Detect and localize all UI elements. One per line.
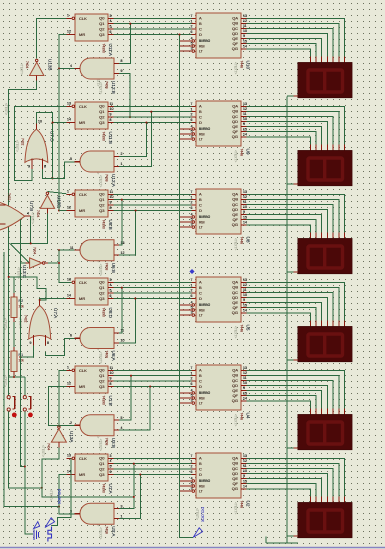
wire segment QG stage3 to display xyxy=(247,225,311,233)
display stage3 pin stub F xyxy=(315,232,317,238)
svg-text:C: C xyxy=(199,290,202,295)
svg-text:Q0: Q0 xyxy=(99,16,105,21)
svg-text:13: 13 xyxy=(121,241,125,245)
svg-text:1: 1 xyxy=(67,14,69,18)
or-gate U7:A body xyxy=(29,306,51,340)
wire U12:B output to MR1 xyxy=(59,35,75,69)
wire display stage4 common pin xyxy=(287,359,294,361)
display stage1 pin stub B xyxy=(338,56,340,62)
wire segment QC stage4 to display xyxy=(247,293,334,321)
display stage5 pin stub C xyxy=(332,408,334,414)
svg-text:7408: 7408 xyxy=(105,526,109,534)
wire segment QF stage3 to display xyxy=(247,220,317,233)
svg-text:U8:D: U8:D xyxy=(108,308,113,319)
svg-text:1: 1 xyxy=(191,195,193,199)
svg-text:Q3: Q3 xyxy=(99,208,105,213)
svg-text:LT: LT xyxy=(199,137,203,141)
svg-text:1: 1 xyxy=(67,366,69,370)
display stage6 pin stub G xyxy=(309,496,311,502)
AND gate U12:A body xyxy=(80,151,114,172)
wire display common bottom run xyxy=(266,542,298,544)
display stage6 pin stub F xyxy=(315,496,317,502)
svg-text:Q3: Q3 xyxy=(99,472,105,477)
wire segment QC stage6 to display xyxy=(247,469,334,497)
sheet border bottom xyxy=(0,547,385,549)
display stage6 pin stub B xyxy=(338,496,340,502)
svg-text:Q0: Q0 xyxy=(99,104,105,109)
switch SW2 xyxy=(23,396,26,399)
display stage5 pin stub E xyxy=(321,408,323,414)
wire segment QG stage6 to display xyxy=(247,489,311,497)
wire Q1 stage3 counter to decoder xyxy=(114,199,192,201)
display stage2 pin stub C xyxy=(332,144,334,150)
counter U1:A CLK pin xyxy=(67,457,72,459)
wire display stage1 common pin xyxy=(287,95,294,97)
wire U3:A upper input tap xyxy=(119,464,134,509)
svg-text:12: 12 xyxy=(121,251,125,255)
svg-text:6: 6 xyxy=(110,30,112,34)
svg-text:12: 12 xyxy=(243,195,247,199)
svg-text:1: 1 xyxy=(191,283,193,287)
svg-text:9: 9 xyxy=(110,113,112,117)
svg-text:<TEXT>: <TEXT> xyxy=(31,212,35,224)
svg-text:CLK: CLK xyxy=(79,192,87,197)
clock source DCLOCK terminal pennant xyxy=(45,518,55,528)
svg-text:6: 6 xyxy=(191,470,193,474)
svg-text:U1:A: U1:A xyxy=(108,484,113,495)
resistor R1 xyxy=(11,351,17,372)
AND gate U6:B body xyxy=(80,240,114,261)
switch SW1 xyxy=(7,396,10,399)
wire segment QC stage1 to display xyxy=(247,29,334,57)
decoder U10 7448 box xyxy=(196,13,241,58)
counter U11:A 74390 box xyxy=(75,14,108,41)
svg-text:8: 8 xyxy=(110,118,112,122)
svg-text:A: A xyxy=(199,104,202,109)
svg-text:Q2: Q2 xyxy=(99,114,105,119)
decoder U9 7448 box xyxy=(196,101,241,146)
svg-text:12: 12 xyxy=(243,283,247,287)
wire Q2 stage3 counter to decoder xyxy=(114,204,192,206)
wire left rail A xyxy=(4,252,59,507)
svg-text:QG: QG xyxy=(232,398,238,403)
7-seg display stage5 body xyxy=(298,414,352,449)
counter U1:B MR pin xyxy=(67,386,76,388)
svg-text:Q1: Q1 xyxy=(99,461,105,466)
svg-text:<TEXT>: <TEXT> xyxy=(99,82,103,94)
svg-text:4: 4 xyxy=(191,477,193,481)
svg-text:7: 7 xyxy=(191,278,193,282)
svg-text:B: B xyxy=(199,197,202,202)
wire U7:A output to MR4 xyxy=(40,299,67,301)
svg-text:3: 3 xyxy=(191,223,193,227)
svg-text:U1:B: U1:B xyxy=(108,396,113,406)
inverter U13C body xyxy=(30,258,42,268)
wire U3:B lower input tap xyxy=(119,387,150,431)
wire Q1 stage4 counter to decoder xyxy=(114,287,192,289)
decoder U4 7448 box xyxy=(196,365,241,410)
svg-text:C: C xyxy=(199,114,202,119)
counter U11:A MR pin xyxy=(67,34,76,36)
svg-text:9: 9 xyxy=(28,165,30,169)
svg-text:7432: 7432 xyxy=(21,138,25,146)
counter U1:A 74390 box xyxy=(75,454,108,481)
svg-text:2: 2 xyxy=(191,25,193,29)
svg-text:<TEXT>: <TEXT> xyxy=(3,375,7,387)
display stage6 pin stub A xyxy=(344,496,346,502)
svg-text:3: 3 xyxy=(110,454,112,458)
svg-text:LT: LT xyxy=(199,49,203,53)
svg-text:15: 15 xyxy=(243,391,247,395)
svg-text:U9: U9 xyxy=(246,149,251,155)
svg-text:Q3: Q3 xyxy=(99,32,105,37)
wire BI/RBI/LT tie rail to clock terminal xyxy=(180,35,194,538)
svg-text:5: 5 xyxy=(191,394,193,398)
wire segment QD stage5 to display xyxy=(247,386,328,409)
svg-text:10: 10 xyxy=(121,339,125,343)
wire bottom stub cap xyxy=(265,537,267,544)
svg-text:<TEXT>: <TEXT> xyxy=(234,62,238,74)
clock source square-wave symbol xyxy=(48,527,52,542)
svg-text:MR: MR xyxy=(79,296,85,301)
display stage5 pin stub G xyxy=(309,408,311,414)
display stage4 pin stub D xyxy=(326,320,328,326)
display stage4 pin stub A xyxy=(344,320,346,326)
wire R2 to R1 xyxy=(13,322,15,347)
wire Q0 stage3 counter to decoder xyxy=(114,193,192,195)
wire U6:B upper input tap xyxy=(119,200,122,246)
svg-text:4: 4 xyxy=(191,125,193,129)
svg-text:10: 10 xyxy=(243,293,247,297)
svg-text:U6:B: U6:B xyxy=(111,263,116,273)
decoder U8 output stubs xyxy=(241,193,247,195)
svg-text:U5: U5 xyxy=(246,325,251,331)
svg-text:3: 3 xyxy=(191,399,193,403)
AND gate U3:A body xyxy=(80,503,114,524)
svg-text:Q1: Q1 xyxy=(99,109,105,114)
svg-text:11: 11 xyxy=(243,464,247,468)
wire segment QD stage4 to display xyxy=(247,298,328,321)
svg-text:A: A xyxy=(199,456,202,461)
svg-text:<TEXT>: <TEXT> xyxy=(234,502,238,514)
wire segment QA stage6 to display xyxy=(247,458,345,496)
wire segment QB stage1 to display xyxy=(247,23,339,56)
svg-text:9: 9 xyxy=(243,298,245,302)
wire staircase net near U7:A xyxy=(14,277,46,300)
svg-text:LT: LT xyxy=(199,225,203,229)
svg-text:9: 9 xyxy=(30,341,32,345)
svg-text:<TEXT>: <TEXT> xyxy=(234,150,238,162)
svg-text:Q0: Q0 xyxy=(99,280,105,285)
wire segment QD stage2 to display xyxy=(247,122,328,145)
wire segment QF stage6 to display xyxy=(247,484,317,497)
svg-text:D: D xyxy=(199,296,202,301)
decoder U5 7448 box xyxy=(196,277,241,322)
display stage4 pin stub E xyxy=(321,320,323,326)
svg-text:CLK: CLK xyxy=(79,456,87,461)
svg-text:5: 5 xyxy=(110,25,112,29)
svg-text:U12:A: U12:A xyxy=(111,174,116,188)
svg-text:D: D xyxy=(199,32,202,37)
inverter U13D body xyxy=(40,195,54,208)
display stage6 pin stub C xyxy=(332,496,334,502)
svg-text:U13D: U13D xyxy=(57,196,62,208)
wire U7:C output to MR2 xyxy=(36,113,66,124)
svg-text:A: A xyxy=(199,280,202,285)
display stage1 pin stub D xyxy=(326,56,328,62)
svg-text:1: 1 xyxy=(191,19,193,23)
7-seg display stage5 segments xyxy=(308,422,343,444)
svg-text:<TEXT>: <TEXT> xyxy=(20,63,24,75)
wire U6:A upper input tap xyxy=(119,288,122,333)
svg-text:7: 7 xyxy=(191,14,193,18)
svg-text:10: 10 xyxy=(243,117,247,121)
svg-text:9: 9 xyxy=(243,210,245,214)
svg-text:Q0: Q0 xyxy=(99,368,105,373)
wire Q0 stage1 counter to decoder xyxy=(114,17,192,19)
svg-text:QG: QG xyxy=(232,134,238,139)
wire Q2 stage2 counter to decoder xyxy=(114,116,192,118)
svg-text:4: 4 xyxy=(110,19,112,23)
svg-text:7: 7 xyxy=(191,190,193,194)
wire segment QA stage3 to display xyxy=(247,194,345,232)
wire U7:A left input to rail xyxy=(20,346,33,358)
7-seg display stage1 segments xyxy=(308,70,343,92)
svg-text:7404: 7404 xyxy=(36,210,40,218)
svg-text:Q0: Q0 xyxy=(99,456,105,461)
wire segment QF stage5 to display xyxy=(247,396,317,409)
svg-text:C: C xyxy=(199,378,202,383)
svg-text:7408: 7408 xyxy=(105,351,109,359)
or-gate U7:B body xyxy=(0,201,25,232)
svg-text:<TEXT>: <TEXT> xyxy=(99,264,103,276)
svg-text:A: A xyxy=(199,16,202,21)
svg-text:Q2: Q2 xyxy=(99,202,105,207)
svg-text:6: 6 xyxy=(191,206,193,210)
wire U3:B output to MR5 xyxy=(75,424,81,426)
wire segment QC stage3 to display xyxy=(247,205,334,233)
wire U6:B output to MR3 xyxy=(59,249,75,251)
svg-text:U7:A: U7:A xyxy=(53,308,58,319)
svg-text:<TEXT>: <TEXT> xyxy=(99,175,103,187)
svg-text:1: 1 xyxy=(67,190,69,194)
clock terminal at decoder U2 xyxy=(193,528,202,538)
svg-text:U7:B: U7:B xyxy=(29,201,34,211)
wire Q0 stage4 counter to decoder xyxy=(114,281,192,283)
display stage2 pin stub G xyxy=(309,144,311,150)
svg-text:11: 11 xyxy=(110,102,114,106)
wire clock source to CLK6 xyxy=(52,458,71,525)
AND gate U12:A input stubs xyxy=(114,156,119,158)
svg-text:2: 2 xyxy=(191,377,193,381)
svg-text:4: 4 xyxy=(191,37,193,41)
svg-text:1: 1 xyxy=(191,107,193,111)
svg-text:<TEXT>: <TEXT> xyxy=(195,508,199,520)
AND gate U3:A input stubs xyxy=(114,508,119,510)
svg-text:7448: 7448 xyxy=(240,149,244,157)
svg-text:12: 12 xyxy=(67,206,71,210)
counter U1:B Q pin stubs xyxy=(108,369,114,371)
7-seg display stage2 segments xyxy=(308,158,343,180)
decoder U9 BI/RBO RBI LT pins xyxy=(180,128,192,130)
svg-text:10: 10 xyxy=(38,120,42,124)
AND gate U6:A body xyxy=(80,328,114,349)
svg-text:MR: MR xyxy=(79,32,85,37)
counter U8:D 74390 box xyxy=(75,278,108,305)
svg-text:11: 11 xyxy=(110,190,114,194)
svg-text:RBI: RBI xyxy=(199,484,205,488)
svg-text:8: 8 xyxy=(110,382,112,386)
svg-text:2: 2 xyxy=(191,289,193,293)
or-gate U7:B pins xyxy=(0,204,6,206)
wire Q3 stage4 counter to decoder xyxy=(114,298,192,300)
wire segment QG stage1 to display xyxy=(247,49,311,57)
svg-text:9: 9 xyxy=(110,201,112,205)
wire U13B input net xyxy=(36,76,38,81)
display stage6 pin stub D xyxy=(326,496,328,502)
svg-text:4: 4 xyxy=(191,301,193,305)
svg-text:6: 6 xyxy=(191,30,193,34)
display stage6 pin stub E xyxy=(321,496,323,502)
svg-text:<TEXT>: <TEXT> xyxy=(49,489,53,501)
svg-text:15: 15 xyxy=(243,215,247,219)
svg-text:BI/RBO: BI/RBO xyxy=(199,391,211,395)
wire segment QE stage6 to display xyxy=(247,479,322,497)
svg-text:BI/RBO: BI/RBO xyxy=(199,39,211,43)
display stage5 pin stub A xyxy=(344,408,346,414)
wire below switch 2 xyxy=(25,411,33,534)
decoder U10 BI/RBO RBI LT pins xyxy=(180,40,192,42)
svg-text:7448: 7448 xyxy=(240,237,244,245)
svg-text:4: 4 xyxy=(191,389,193,393)
svg-text:9: 9 xyxy=(110,377,112,381)
wire segment QB stage2 to display xyxy=(247,111,339,144)
svg-text:B: B xyxy=(199,285,202,290)
wire U7:B output down xyxy=(30,216,32,243)
svg-text:13: 13 xyxy=(243,190,247,194)
svg-text:Q2: Q2 xyxy=(99,290,105,295)
svg-text:U13B: U13B xyxy=(48,59,53,71)
wire U3:A lower input tap xyxy=(119,475,140,519)
svg-text:<TEXT>: <TEXT> xyxy=(99,352,103,364)
wire segment QA stage1 to display xyxy=(247,18,345,56)
svg-text:9: 9 xyxy=(243,122,245,126)
counter U1:B 74390 box xyxy=(75,366,108,393)
node marker blue diamond xyxy=(189,269,194,274)
svg-text:Q1: Q1 xyxy=(99,21,105,26)
svg-text:13: 13 xyxy=(243,366,247,370)
counter U8:D Q pin stubs xyxy=(108,281,114,283)
svg-text:D: D xyxy=(199,120,202,125)
svg-text:B: B xyxy=(199,109,202,114)
decoder U4 output stubs xyxy=(241,369,247,371)
svg-text:U11:B: U11:B xyxy=(108,132,113,144)
display stage2 pin stub F xyxy=(315,144,317,150)
svg-text:12: 12 xyxy=(67,382,71,386)
counter U11:B Q pin stubs xyxy=(108,105,114,107)
wire U13B output to CLK1 xyxy=(37,18,67,58)
wire Q3 stage3 counter to decoder xyxy=(114,210,192,212)
svg-text:Q3: Q3 xyxy=(99,384,105,389)
wire below switch 1 xyxy=(9,411,42,488)
display stage3 pin stub B xyxy=(338,232,340,238)
svg-text:5: 5 xyxy=(121,416,123,420)
wire U12:B upper input tap xyxy=(119,24,130,64)
svg-text:7404: 7404 xyxy=(33,247,37,255)
svg-text:U4: U4 xyxy=(246,413,251,419)
wire Q1 stage6 counter to decoder xyxy=(114,463,192,465)
inverter U13D input stub xyxy=(46,208,48,213)
wire U13C output to CLK4 xyxy=(45,262,48,264)
svg-text:7432: 7432 xyxy=(24,315,28,323)
7-seg display stage4 body xyxy=(298,326,352,361)
svg-text:3: 3 xyxy=(191,487,193,491)
svg-text:9: 9 xyxy=(243,386,245,390)
svg-text:5: 5 xyxy=(191,218,193,222)
wire Q2 stage1 counter to decoder xyxy=(114,28,192,30)
svg-text:C: C xyxy=(199,466,202,471)
svg-text:R1: R1 xyxy=(19,353,24,357)
wire reset rail x59 xyxy=(58,69,60,211)
svg-text:<TEXT>: <TEXT> xyxy=(99,439,103,451)
svg-text:RBI: RBI xyxy=(199,132,205,136)
svg-text:10: 10 xyxy=(110,107,114,111)
AND gate U6:B input stubs xyxy=(114,244,119,246)
svg-text:Q2: Q2 xyxy=(99,26,105,31)
svg-text:A: A xyxy=(199,192,202,197)
svg-text:6: 6 xyxy=(110,294,112,298)
svg-text:R2: R2 xyxy=(19,299,24,303)
wire U13D/U13C input net xyxy=(20,213,47,263)
svg-text:MR: MR xyxy=(79,472,85,477)
svg-text:BI/RBO: BI/RBO xyxy=(199,215,211,219)
svg-text:U12:B: U12:B xyxy=(111,81,116,94)
wire display common vertical rail xyxy=(286,97,288,543)
svg-text:Q1: Q1 xyxy=(99,197,105,202)
wire Q2 stage4 counter to decoder xyxy=(114,292,192,294)
svg-text:3: 3 xyxy=(121,504,123,508)
or-gate U7:A pins xyxy=(39,300,41,306)
svg-text:RBI: RBI xyxy=(199,44,205,48)
AND gate U12:B body xyxy=(80,58,114,79)
svg-text:8: 8 xyxy=(121,59,123,63)
svg-text:14: 14 xyxy=(67,470,71,474)
wire segment QG stage5 to display xyxy=(247,401,311,409)
svg-text:74390: 74390 xyxy=(102,132,106,142)
decoder U2 7448 box xyxy=(196,453,241,498)
svg-text:2: 2 xyxy=(191,465,193,469)
7-seg display stage2 body xyxy=(298,150,352,185)
wire Q2 stage6 counter to decoder xyxy=(114,468,192,470)
wire segment QD stage3 to display xyxy=(247,210,328,233)
wire CLK2 feed from left rail xyxy=(15,106,67,180)
svg-text:74390: 74390 xyxy=(102,220,106,230)
svg-text:7404: 7404 xyxy=(47,443,51,451)
wire segment QF stage4 to display xyxy=(247,308,317,321)
AND gate U12:A output stub xyxy=(75,161,81,163)
wire U12:A lower input tap xyxy=(119,112,151,167)
svg-text:QG: QG xyxy=(232,310,238,315)
decoder U5 output stubs xyxy=(241,281,247,283)
display stage4 pin stub F xyxy=(315,320,317,326)
display stage1 pin stub C xyxy=(332,56,334,62)
svg-text:2: 2 xyxy=(191,201,193,205)
svg-text:2: 2 xyxy=(70,421,72,425)
svg-text:10: 10 xyxy=(243,205,247,209)
decoder U10 output stubs xyxy=(241,17,247,19)
svg-text:3: 3 xyxy=(191,47,193,51)
svg-text:13: 13 xyxy=(67,102,71,106)
